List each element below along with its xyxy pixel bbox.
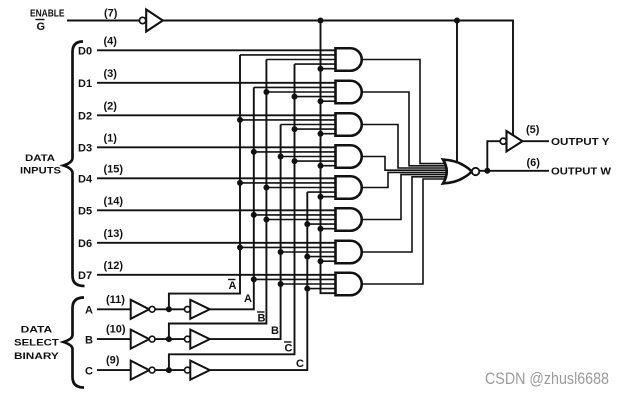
svg-text:(14): (14) [104, 195, 124, 207]
junction C-bar/G4 [292, 158, 298, 164]
label DATA SELECT BINARY [14, 325, 60, 363]
AND gate G6 (D5 term) [336, 208, 362, 231]
wire A inverter to buffer [155, 308, 185, 310]
svg-text:(1): (1) [104, 132, 118, 144]
wire D1 [97, 82, 340, 84]
wire D4 [97, 177, 340, 179]
svg-text:(15): (15) [104, 163, 124, 175]
junction C-bar/G3 [292, 126, 298, 132]
svg-text:B: B [258, 313, 266, 325]
junction EN/G2 [318, 98, 324, 104]
net C rail [210, 192, 307, 370]
brace data select binary [64, 298, 85, 388]
inverter U4A (C complement) [131, 361, 155, 380]
wire C-bar to G2 [295, 96, 340, 98]
svg-text:D6: D6 [78, 238, 92, 250]
wire B-bar to G1 [266, 59, 339, 61]
net C-bar rail [169, 64, 295, 370]
wire B to G8 [281, 283, 340, 285]
junction node A-bar tap [166, 306, 172, 312]
svg-text:A: A [229, 280, 237, 292]
wire C to G6 [307, 223, 339, 225]
junction A/G8 [251, 276, 257, 282]
inverter U3A (B complement) [131, 330, 155, 349]
svg-text:D2: D2 [78, 111, 92, 123]
svg-text:B: B [85, 334, 93, 346]
wire B to G4 [281, 156, 340, 158]
svg-text:(9): (9) [106, 355, 120, 367]
wire EN to G7 [321, 260, 340, 262]
svg-text:D5: D5 [78, 206, 92, 218]
svg-text:(11): (11) [106, 294, 125, 306]
junction strobe/NOR drop [454, 18, 460, 24]
junction A/G6 [251, 212, 257, 218]
wire A to G4 [254, 151, 340, 153]
label net B-bar [257, 312, 266, 325]
net B rail [210, 125, 281, 340]
label DATA INPUTS [20, 153, 61, 177]
svg-text:G: G [37, 21, 46, 33]
junction B-bar/G6 [263, 217, 269, 223]
inverter U1 strobe [139, 10, 162, 32]
wire G1 output [362, 60, 452, 164]
junction A-bar/G5 [237, 180, 243, 186]
label ENABLE G-bar (strobe input) [30, 8, 65, 34]
wire A to G6 [254, 214, 340, 216]
svg-text:CSDN @zhusl6688: CSDN @zhusl6688 [485, 369, 609, 388]
AND gate G8 (D7 term) [336, 273, 362, 296]
svg-text:(6): (6) [527, 157, 541, 169]
wire A-bar to G5 [240, 182, 340, 184]
NOR gate U5 (output stage) [443, 160, 472, 184]
svg-text:C: C [285, 343, 293, 355]
wire A-bar to G7 [240, 246, 340, 248]
svg-text:OUTPUT W: OUTPUT W [551, 167, 612, 178]
AND gate G2 (D1 term) [336, 81, 362, 104]
junction EN/G3 [318, 131, 324, 137]
junction EN/G4 [318, 163, 324, 169]
svg-text:INPUTS: INPUTS [20, 166, 61, 177]
wire B to G7 [281, 251, 340, 253]
wire G2 output [362, 92, 452, 166]
wire D6 [97, 242, 340, 244]
svg-text:(13): (13) [104, 228, 124, 240]
wire C-bar to G4 [295, 160, 340, 162]
wire strobe drop to NOR [456, 21, 458, 171]
svg-text:(5): (5) [526, 124, 540, 136]
junction B-bar/G5 [263, 185, 269, 191]
svg-text:SELECT: SELECT [14, 338, 59, 349]
wire C to G8 [307, 288, 339, 290]
svg-text:(4): (4) [104, 35, 118, 47]
junction C/G7 [304, 254, 310, 260]
junction B/G4 [278, 154, 284, 160]
svg-text:C: C [296, 358, 304, 370]
wire G4 output [362, 157, 452, 171]
brace data inputs [64, 42, 85, 287]
net B-bar rail [169, 60, 267, 340]
svg-text:D1: D1 [78, 78, 92, 90]
svg-text:A: A [244, 293, 252, 305]
svg-text:DATA: DATA [21, 325, 53, 336]
wire enable input [67, 20, 139, 22]
wire W to Y inverter [487, 141, 500, 171]
junction A-bar/G3 [237, 117, 243, 123]
wire EN to G6 [321, 228, 340, 230]
junction EN/G6 [318, 226, 324, 232]
wire C to G7 [307, 256, 339, 258]
svg-text:D4: D4 [78, 174, 93, 186]
wire G7 output [362, 177, 452, 252]
svg-text:D7: D7 [78, 270, 92, 282]
svg-text:C: C [85, 365, 93, 377]
wire C to G5 [307, 191, 339, 193]
wire B inverter to buffer [155, 338, 185, 340]
junction EN/G1 [318, 66, 324, 72]
wire B to G3 [281, 124, 340, 126]
junction C-bar/G2 [292, 94, 298, 100]
svg-text:(7): (7) [104, 8, 118, 20]
wire EN column [321, 21, 340, 294]
svg-text:D3: D3 [78, 143, 92, 155]
wire D5 [97, 209, 340, 211]
net A rail [210, 87, 254, 309]
svg-text:B: B [271, 325, 279, 337]
wire C-bar to G1 [295, 63, 340, 65]
svg-text:D0: D0 [78, 46, 92, 58]
wire G3 output [362, 125, 452, 169]
junction B/G7 [278, 249, 284, 255]
wire A to G2 [254, 86, 340, 88]
wire G8 output [362, 179, 452, 284]
svg-text:BINARY: BINARY [14, 351, 60, 362]
wire A to G8 [254, 278, 340, 280]
svg-text:(3): (3) [104, 68, 118, 80]
wire A-bar to G3 [240, 119, 340, 121]
inverter U6 (Y output) [500, 131, 522, 151]
AND gate G3 (D2 term) [336, 113, 362, 136]
wire C input [97, 369, 131, 371]
wire D3 [97, 146, 340, 148]
wire D2 [97, 114, 340, 116]
svg-text:(12): (12) [104, 260, 124, 272]
label net A-bar [228, 280, 237, 293]
svg-text:ENABLE: ENABLE [30, 8, 65, 20]
wire EN to G1 [321, 68, 340, 70]
wire A input [97, 308, 131, 310]
wire C inverter to buffer [155, 369, 185, 371]
wire W output [479, 170, 549, 172]
junction strobe/EN column [318, 18, 324, 24]
wire EN to G4 [321, 165, 340, 167]
junction A/G4 [251, 149, 257, 155]
wire Y output [522, 140, 549, 142]
buffer U4B (C true) [185, 361, 210, 380]
wire EN to G2 [321, 100, 340, 102]
junction node C-bar tap [166, 367, 172, 373]
wire D0 [97, 49, 340, 51]
buffer U2B (A true) [185, 300, 210, 319]
inverter U2A (A complement) [131, 300, 155, 319]
svg-text:OUTPUT Y: OUTPUT Y [551, 137, 610, 148]
wire B-bar to G6 [266, 219, 339, 221]
wire B-bar to G5 [266, 187, 339, 189]
net A-bar rail [169, 55, 240, 309]
junction B/G8 [278, 281, 284, 287]
wire G5 output [362, 172, 452, 187]
junction C/G8 [304, 286, 310, 292]
wire EN to G5 [321, 196, 340, 198]
junction A-bar/G7 [237, 244, 243, 250]
svg-text:(10): (10) [106, 324, 126, 336]
buffer U3B (B true) [185, 330, 210, 349]
AND gate G4 (D3 term) [336, 145, 362, 168]
wire G6 output [362, 175, 452, 220]
junction B-bar/G2 [263, 89, 269, 95]
wire B-bar to G2 [266, 91, 339, 93]
wire C-bar to G3 [295, 128, 340, 130]
wire D7 [97, 274, 340, 276]
wire strobe rail [163, 21, 513, 138]
svg-text:DATA: DATA [25, 153, 55, 164]
wire EN to G3 [321, 133, 340, 135]
label net C-bar [284, 342, 293, 355]
AND gate G1 (D0 term) [336, 48, 362, 71]
AND gate G5 (D4 term) [336, 176, 362, 199]
junction C/G6 [304, 221, 310, 227]
svg-text:(2): (2) [104, 100, 118, 112]
junction node W [484, 168, 490, 174]
wire B input [97, 338, 131, 340]
wire A-bar to G1 [240, 54, 340, 56]
AND gate G7 (D6 term) [336, 241, 362, 264]
junction node B-bar tap [166, 336, 172, 342]
junction EN/G7 [318, 258, 324, 264]
junction EN/G5 [318, 194, 324, 200]
svg-text:A: A [85, 305, 93, 317]
